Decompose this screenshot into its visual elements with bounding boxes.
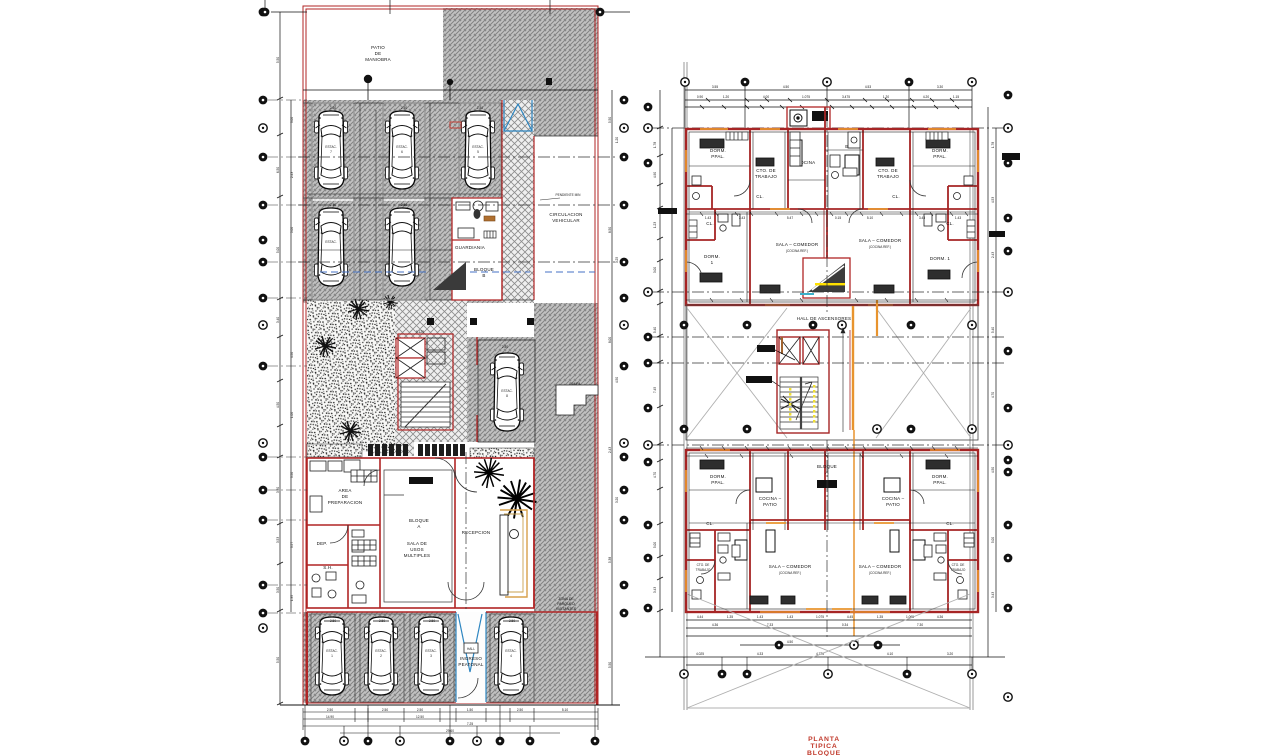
dim numbers row under upper block [705, 216, 961, 220]
svg-text:2.50: 2.50 [330, 619, 336, 623]
svg-text:3.43: 3.43 [653, 587, 657, 593]
svg-text:4.53: 4.53 [991, 197, 995, 203]
svg-text:7.25: 7.25 [467, 722, 473, 726]
svg-text:AREA: AREA [338, 488, 351, 493]
stair arrow lines mid [796, 382, 812, 420]
svg-text:1.43: 1.43 [705, 216, 711, 220]
upper block outer red wall [686, 129, 978, 305]
svg-text:3.53: 3.53 [276, 537, 280, 543]
stair dark triangle upper [808, 263, 845, 292]
svg-text:COCINA –: COCINA – [759, 496, 782, 501]
svg-text:MANIOBRA: MANIOBRA [365, 57, 391, 62]
reception desk black counter [500, 515, 519, 595]
bath cluster lower left apartment [718, 545, 740, 580]
svg-text:USOS: USOS [410, 547, 424, 552]
right grid bubble column [596, 8, 629, 618]
gray paving parking area rows 1-2 [303, 136, 502, 303]
car ESTAC 7 [315, 111, 348, 189]
inner black wall faces lower block [689, 453, 975, 609]
guardiania room floor [452, 198, 502, 300]
svg-text:(COCINA REF.): (COCINA REF.) [869, 571, 891, 575]
svg-text:2.50: 2.50 [330, 106, 336, 110]
white stall backgrounds row1 [312, 103, 501, 300]
svg-text:1: 1 [331, 654, 333, 658]
svg-text:RECEPCION: RECEPCION [462, 530, 491, 535]
bike rack row [368, 444, 465, 456]
orange lintel accents lower block [686, 470, 978, 609]
gray paving bottom parking band [303, 612, 598, 703]
bottom X panel [687, 594, 970, 708]
svg-text:5.10: 5.10 [867, 216, 873, 220]
ingreso peatonal white path [456, 612, 486, 703]
svg-text:3.50: 3.50 [276, 587, 280, 593]
bottom dim numbers right plan [696, 615, 953, 656]
orange riser line 2 [853, 430, 855, 636]
stove icon black [790, 110, 807, 126]
svg-text:CL.: CL. [756, 194, 764, 199]
svg-text:5.50: 5.50 [608, 662, 612, 668]
bottom parking stall outlines [311, 614, 534, 702]
inner black wall faces upper block [689, 132, 975, 302]
top bubble stems [685, 86, 972, 129]
elevator X braces mid [779, 337, 819, 364]
svg-text:7: 7 [330, 150, 332, 154]
svg-text:ZONA DE: ZONA DE [558, 597, 574, 601]
grid point markers on patio line [364, 75, 372, 83]
svg-text:4.70: 4.70 [991, 392, 995, 398]
dim vertical line right of stairs [841, 328, 845, 432]
top bubble [261, 8, 270, 17]
svg-text:1.20: 1.20 [615, 137, 619, 143]
tree T4 small [383, 295, 398, 310]
leader lines [772, 350, 800, 400]
svg-text:DORM.: DORM. [704, 254, 720, 259]
axis dashdot top [652, 127, 1005, 129]
dimension line across patio bottom [303, 80, 598, 100]
right dimension chain [598, 12, 630, 705]
svg-text:3.57: 3.57 [290, 542, 294, 548]
dimension number sprinkles right plan columns [653, 142, 995, 598]
tree T3 [340, 421, 361, 442]
internal dimension verticals parking [360, 103, 430, 300]
svg-text:PATIO: PATIO [763, 502, 777, 507]
top dimension ticks [700, 98, 959, 109]
elevator door brown accent [781, 337, 783, 354]
svg-text:SALA – COMEDOR: SALA – COMEDOR [859, 564, 902, 569]
axis dashdot mid rows [652, 292, 1005, 363]
svg-text:CIRCULACION: CIRCULACION [549, 212, 582, 217]
closet hatch upper left [689, 132, 975, 238]
mid X panel right [876, 308, 971, 438]
svg-text:1.35: 1.35 [877, 615, 883, 619]
svg-text:3.20: 3.20 [615, 497, 619, 503]
svg-text:4.36: 4.36 [712, 623, 718, 627]
svg-text:SALA DE: SALA DE [407, 541, 427, 546]
svg-text:INGRESO: INGRESO [460, 656, 482, 661]
svg-text:3.43: 3.43 [739, 216, 745, 220]
car row2 mid [386, 208, 419, 286]
dimension number sprinkles left plan columns [290, 117, 619, 668]
svg-text:ESTAC.: ESTAC. [425, 649, 436, 653]
svg-text:5.47: 5.47 [787, 216, 793, 220]
svg-text:HALL: HALL [467, 647, 475, 651]
bath fixtures lower [692, 577, 967, 600]
mid zone outline [686, 305, 978, 440]
elevator shaft mid [396, 338, 425, 378]
orange window marks sala bottom wall [765, 304, 893, 306]
svg-text:1.075: 1.075 [816, 615, 824, 619]
svg-text:CL.: CL. [706, 521, 714, 526]
svg-text:4: 4 [510, 654, 512, 658]
svg-text:TRABAJO: TRABAJO [877, 174, 899, 179]
column markers mid [427, 318, 434, 325]
black leader bar 1 [757, 345, 775, 352]
hall ascensores opening [750, 304, 910, 306]
svg-text:5.00: 5.00 [653, 542, 657, 548]
svg-text:PPAL.: PPAL. [933, 480, 946, 485]
svg-text:4.50: 4.50 [787, 640, 793, 644]
bottom dimension chains [303, 708, 598, 733]
svg-text:ESTAC.: ESTAC. [325, 145, 336, 149]
bottom ground line [280, 704, 620, 706]
svg-text:CL.: CL. [946, 221, 954, 226]
black bar leader right [1002, 153, 1020, 160]
svg-text:3.25: 3.25 [615, 257, 619, 263]
svg-text:4.53: 4.53 [865, 85, 871, 89]
guardiania shelf hatch [484, 231, 496, 238]
svg-text:GUARDIANIA: GUARDIANIA [455, 245, 485, 250]
svg-text:1.20: 1.20 [723, 95, 729, 99]
svg-text:4.00: 4.00 [763, 95, 769, 99]
svg-text:2: 2 [380, 654, 382, 658]
circulation vehicular area lines [534, 136, 598, 300]
svg-text:5.125: 5.125 [416, 330, 424, 334]
svg-text:5.50: 5.50 [608, 117, 612, 123]
right bubble column right plan [1004, 91, 1013, 702]
svg-text:1.35: 1.35 [727, 615, 733, 619]
dimension numbers inside parking rows [330, 106, 515, 623]
elevator X braces [396, 338, 445, 378]
svg-text:4.70: 4.70 [653, 472, 657, 478]
svg-text:ESTAC.: ESTAC. [326, 649, 337, 653]
svg-text:2.50: 2.50 [477, 106, 483, 110]
internal dimension horizontals parking [307, 194, 502, 250]
right dim column right plan [988, 107, 996, 657]
svg-text:PPAL.: PPAL. [711, 480, 724, 485]
blue dashed level line [320, 271, 595, 273]
gray paving upper parking band [303, 100, 598, 136]
svg-text:SALA – COMEDOR: SALA – COMEDOR [769, 564, 812, 569]
svg-text:6: 6 [401, 150, 403, 154]
svg-text:DEP.: DEP. [317, 541, 328, 546]
svg-text:3.55: 3.55 [712, 85, 718, 89]
car bottom 3 [415, 617, 448, 695]
svg-text:VISITANTES: VISITANTES [556, 607, 577, 611]
svg-text:4.33: 4.33 [757, 652, 763, 656]
name plate black lower [817, 480, 837, 488]
svg-text:4.20: 4.20 [923, 95, 929, 99]
left dim ticks right plan [657, 126, 663, 612]
guardiania cabinet brown [484, 216, 495, 221]
svg-text:PEATONAL: PEATONAL [458, 662, 483, 667]
svg-text:RAMPA: RAMPA [569, 382, 581, 386]
svg-text:1.43: 1.43 [757, 615, 763, 619]
svg-text:BLOQUE: BLOQUE [474, 267, 494, 272]
stairs red outline [398, 334, 453, 430]
bath cluster upper corridor left [718, 214, 740, 231]
stair yellow dashes [789, 385, 815, 423]
svg-text:3.20: 3.20 [947, 652, 953, 656]
svg-text:4.10: 4.10 [887, 652, 893, 656]
svg-text:DORM. 1: DORM. 1 [930, 256, 950, 261]
mid X panel left [687, 308, 787, 438]
svg-text:TRABAJO: TRABAJO [951, 568, 966, 572]
svg-text:3.00: 3.00 [290, 117, 294, 123]
lower furniture dark label boxes [700, 460, 950, 604]
svg-text:DORM.: DORM. [932, 148, 948, 153]
closet shelving column [351, 470, 377, 566]
bottom bubble stems [305, 705, 595, 737]
left dimension tiny numbers [276, 57, 280, 663]
svg-text:4.36: 4.36 [937, 615, 943, 619]
red stall mark left of estac5 [450, 122, 461, 128]
tree T2 [348, 299, 369, 320]
svg-text:(COCINA REF.): (COCINA REF.) [786, 249, 808, 253]
svg-text:TIPICA: TIPICA [810, 743, 837, 750]
svg-text:1.43: 1.43 [787, 615, 793, 619]
bath cluster upper corridor right [924, 214, 946, 231]
dim tick row under upper block [686, 212, 978, 216]
top dimension stubs [265, 0, 550, 14]
gray paving top-right block [443, 8, 598, 100]
svg-text:1.075: 1.075 [802, 95, 810, 99]
svg-text:B: B [482, 273, 485, 278]
orange wall accents lower bottom [700, 450, 960, 612]
bottom bubble row right plan [680, 670, 976, 679]
svg-text:6.50: 6.50 [276, 167, 280, 173]
svg-text:3.00: 3.00 [653, 267, 657, 273]
svg-text:CL.: CL. [892, 194, 900, 199]
svg-text:2.50: 2.50 [502, 345, 508, 349]
svg-text:4.50: 4.50 [276, 402, 280, 408]
upper furniture dark label boxes [700, 139, 950, 293]
right red wall of reception [533, 458, 535, 608]
upper block inner partitions red [686, 107, 978, 305]
stair yellow mark [815, 283, 845, 285]
svg-text:DORM.: DORM. [710, 474, 726, 479]
svg-text:3.30: 3.30 [937, 85, 943, 89]
dim tick rows between blocks [686, 446, 978, 458]
svg-text:3.40: 3.40 [276, 317, 280, 323]
door arcs lower [701, 490, 962, 574]
svg-text:4.50: 4.50 [615, 377, 619, 383]
extra mid bubbles [680, 321, 977, 330]
svg-text:3: 3 [430, 654, 432, 658]
svg-text:1.50: 1.50 [467, 708, 473, 712]
bath cluster lower right apartment [924, 545, 946, 580]
svg-text:DORM.: DORM. [710, 148, 726, 153]
svg-text:5.50: 5.50 [276, 57, 280, 63]
planter strip right of reception [470, 448, 534, 458]
right plan inner dim ticks row y300 [686, 298, 978, 302]
axis dashdot row 440 [652, 444, 1005, 446]
svg-text:5.00: 5.00 [991, 537, 995, 543]
svg-text:CTO. DE: CTO. DE [952, 563, 965, 567]
blue ramp triangle A [504, 100, 532, 131]
svg-text:2.50: 2.50 [401, 106, 407, 110]
svg-text:PATIO: PATIO [886, 502, 900, 507]
svg-text:CTO. DE: CTO. DE [878, 168, 898, 173]
orange lintel accents upper block [686, 129, 978, 272]
axis dashdot lines in circulation [298, 157, 618, 262]
svg-text:DE: DE [342, 494, 349, 499]
svg-text:5.00: 5.00 [276, 247, 280, 253]
car row2 left [315, 208, 348, 286]
kitchen annex top red outline [787, 107, 830, 129]
svg-text:4.44: 4.44 [697, 615, 703, 619]
svg-text:CTO. DE: CTO. DE [697, 563, 710, 567]
svg-text:2.50: 2.50 [330, 203, 336, 207]
palm P2 [498, 480, 537, 519]
car bottom 4 [495, 617, 528, 695]
crosshatch courtyard around stairs [380, 300, 467, 442]
svg-text:5.40: 5.40 [653, 327, 657, 333]
svg-text:PATIO: PATIO [371, 45, 385, 50]
svg-text:2.50: 2.50 [509, 619, 515, 623]
small bath mid fixtures [352, 530, 366, 603]
black leader bar 2 [746, 376, 772, 383]
note text right bottom gray [556, 597, 577, 611]
svg-text:1.23: 1.23 [653, 222, 657, 228]
left dimension ticks [277, 97, 283, 705]
dark sofa marks lower salas [766, 530, 899, 552]
bubble row mid top [743, 321, 916, 330]
svg-text:5: 5 [477, 150, 479, 154]
svg-text:0.15: 0.15 [835, 216, 841, 220]
stairs mid block [401, 382, 450, 427]
svg-text:MULTIPLES: MULTIPLES [404, 553, 430, 558]
gray paving right circulation strip lower [534, 303, 598, 703]
top dimension lines [685, 90, 972, 107]
planter strip above lower building [307, 444, 362, 457]
svg-text:8.50: 8.50 [608, 227, 612, 233]
svg-text:ESTAC.: ESTAC. [396, 145, 407, 149]
center vertical axis dashdot [826, 115, 828, 640]
car bottom 2 [365, 617, 398, 695]
corridor door arcs [330, 458, 455, 543]
svg-text:CL.: CL. [946, 521, 954, 526]
car bottom 1 [316, 617, 349, 695]
kitchen counters upper [790, 132, 860, 166]
svg-text:DE: DE [375, 51, 382, 56]
guardiania room walls [452, 198, 502, 300]
orange riser line 1 [852, 306, 854, 430]
svg-text:SALA – COMEDOR: SALA – COMEDOR [859, 238, 902, 243]
svg-text:4.50: 4.50 [290, 352, 294, 358]
svg-text:8.00: 8.00 [608, 337, 612, 343]
bloque A inner lines [384, 470, 452, 602]
lavadero icon [812, 111, 828, 121]
stair scissor mark [781, 396, 800, 412]
svg-text:4.45: 4.45 [847, 615, 853, 619]
parking stall division lines row1 [303, 103, 534, 300]
steps in right gray area [556, 385, 598, 415]
svg-text:BLOQUE: BLOQUE [409, 518, 429, 523]
elevator shaft mid [779, 337, 819, 364]
lower furniture white marks [735, 478, 925, 560]
svg-text:4.025: 4.025 [696, 652, 704, 656]
svg-text:5.10: 5.10 [562, 708, 568, 712]
svg-text:TRABAJO: TRABAJO [755, 174, 777, 179]
red boundary bottom verticals [307, 612, 597, 705]
ramp solid triangle [433, 262, 466, 290]
left dimension chain lines [271, 12, 307, 705]
svg-text:4.50: 4.50 [783, 85, 789, 89]
left dim column right plan [660, 90, 672, 657]
svg-text:PENDIENTE MIN: PENDIENTE MIN [556, 193, 582, 197]
svg-text:S.H.: S.H. [323, 565, 333, 570]
svg-text:(COCINA REF.): (COCINA REF.) [869, 245, 891, 249]
lower building outer red wall [307, 458, 534, 608]
title text planta tipica bloque [807, 736, 841, 756]
bottom grid bubble row [301, 737, 600, 746]
svg-text:COCINA –: COCINA – [882, 496, 905, 501]
red line next to riser [849, 330, 851, 430]
orange riser line 3 [876, 300, 878, 336]
svg-text:5.38: 5.38 [608, 557, 612, 563]
ingreso door arc [458, 678, 478, 698]
svg-text:1.95: 1.95 [290, 595, 294, 601]
garden stipple area [307, 300, 395, 452]
svg-text:PREPARACION: PREPARACION [328, 500, 363, 505]
svg-text:2.50: 2.50 [429, 619, 435, 623]
svg-text:2.50: 2.50 [417, 708, 423, 712]
bottom bubble stems right plan [684, 657, 972, 670]
svg-text:2.43: 2.43 [290, 172, 294, 178]
palm P1 [474, 458, 504, 488]
tree T1 [315, 336, 336, 357]
stair cyan mark [800, 293, 814, 295]
car ESTAC 6 [386, 111, 419, 189]
guardiania toilet dark [474, 209, 481, 219]
svg-text:5.00: 5.00 [290, 227, 294, 233]
svg-text:PPAL.: PPAL. [711, 154, 724, 159]
svg-text:12.50: 12.50 [416, 715, 424, 719]
svg-text:0.90: 0.90 [697, 95, 703, 99]
svg-text:5.40: 5.40 [991, 327, 995, 333]
svg-text:PARQUEO: PARQUEO [557, 602, 575, 606]
property boundary red double line [303, 6, 598, 705]
svg-text:ESTAC.: ESTAC. [325, 240, 336, 244]
fixtures left edge lower block [690, 533, 974, 547]
bubble row under building [775, 641, 883, 650]
property line left gray double [684, 62, 687, 710]
black bar leader left [658, 208, 677, 214]
lower block outer red wall [686, 450, 978, 612]
svg-text:ESTAC.: ESTAC. [501, 389, 512, 393]
top dimension numbers [697, 85, 959, 99]
top grid bubble row [681, 78, 976, 87]
svg-text:2.50: 2.50 [401, 203, 407, 207]
svg-text:ESTAC.: ESTAC. [472, 145, 483, 149]
crosshatch small strip above lower building [372, 440, 414, 456]
bubble row mid bottom [680, 425, 977, 434]
svg-text:2.50: 2.50 [327, 708, 333, 712]
svg-text:4.90: 4.90 [653, 172, 657, 178]
bottom dims right plan [645, 620, 1005, 665]
svg-text:CL.: CL. [706, 221, 714, 226]
svg-text:14.90: 14.90 [326, 715, 334, 719]
